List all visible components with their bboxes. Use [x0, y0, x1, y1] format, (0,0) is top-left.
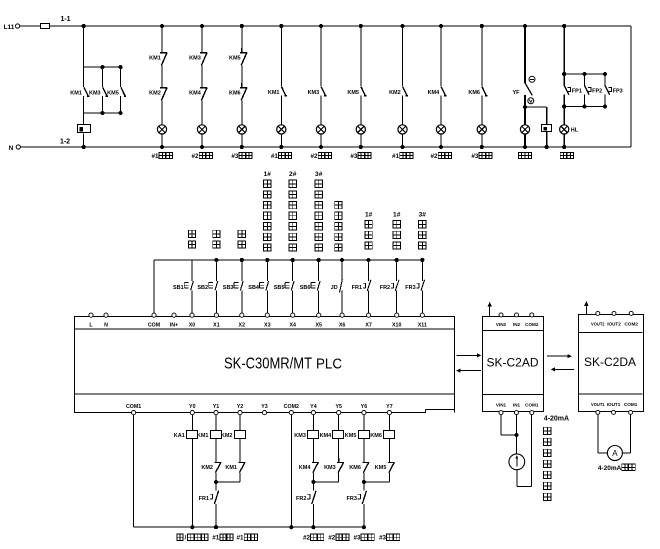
svg-text:2#: 2# — [289, 171, 297, 178]
input branch wire X3 — [266, 260, 268, 281]
svg-text:IN1: IN1 — [513, 402, 521, 407]
wire bell to bus — [83, 133, 85, 147]
contact KM4 NC — [200, 83, 207, 88]
node pair join — [311, 480, 315, 484]
wire pair join — [313, 481, 338, 483]
node top bus junction bell branch — [82, 24, 86, 28]
contact KM1 NC — [160, 48, 167, 53]
power arrow C2DA — [585, 305, 587, 315]
svg-text:FR2: FR2 — [296, 496, 306, 502]
contact KM3 NC interlock — [337, 458, 344, 462]
wire to horn — [525, 106, 547, 108]
fault branch FP1-FP3 — [562, 24, 566, 28]
svg-text:KM3: KM3 — [189, 56, 201, 62]
svg-text:X4: X4 — [289, 323, 296, 329]
svg-text:KM1: KM1 — [197, 433, 209, 439]
lamp #2变频 — [316, 125, 325, 134]
svg-text:KM4: KM4 — [189, 91, 202, 97]
svg-text:X5: X5 — [315, 323, 322, 329]
svg-text:KM3: KM3 — [89, 91, 101, 97]
arrow PLC to C2AD — [457, 354, 478, 356]
wire right frame — [630, 26, 632, 147]
node rail junction 4 — [291, 258, 295, 262]
wire IN1 to sensor — [516, 415, 518, 454]
lamp branch #3工频 (KM6) — [480, 24, 484, 28]
svg-text:4-20mA: 4-20mA — [544, 416, 569, 423]
wire COM rail — [154, 259, 422, 261]
svg-text:KM1: KM1 — [225, 465, 237, 471]
input branch wire X11 — [421, 260, 423, 281]
svg-text:VIN2: VIN2 — [496, 322, 507, 327]
wire output bottom rail — [134, 526, 364, 528]
wire COM drop — [153, 260, 155, 313]
svg-text:JD: JD — [331, 285, 338, 291]
svg-text:3#: 3# — [315, 171, 323, 178]
lamp #1停止 — [157, 125, 166, 134]
contact KM3 NC — [200, 48, 207, 53]
contact FR1 thermal — [215, 482, 217, 490]
svg-text:#3: #3 — [471, 153, 479, 160]
pin X4 (PLC top) — [291, 313, 295, 317]
pin IOUT2 (C2DA top) — [612, 311, 616, 315]
svg-text:L11: L11 — [4, 24, 15, 31]
svg-text:FR1: FR1 — [199, 496, 209, 502]
node rail junctions bottom — [100, 111, 104, 115]
input branch wire X7 — [368, 260, 370, 281]
svg-text:FP1: FP1 — [572, 89, 582, 95]
input branch wire X10 — [396, 260, 398, 281]
pin COM (PLC top) — [152, 313, 156, 317]
svg-text:Y1: Y1 — [213, 404, 220, 410]
contact KM5 NO — [361, 87, 365, 96]
svg-text:N: N — [9, 145, 14, 152]
contact KM3 (bell) — [101, 67, 103, 87]
svg-text:KM6: KM6 — [229, 91, 241, 97]
svg-text:1#: 1# — [365, 211, 373, 218]
lamp branch #2工频 (KM4) — [439, 24, 443, 28]
wire Y2 to Y1 join — [216, 481, 240, 483]
svg-text:KM5: KM5 — [375, 465, 387, 471]
svg-text:COM: COM — [148, 323, 161, 329]
svg-text:SK-C30MR/MT: SK-C30MR/MT — [224, 355, 312, 372]
contact KM2 NC interlock — [214, 458, 221, 462]
svg-text:IN2: IN2 — [513, 322, 521, 327]
terminal N — [16, 145, 20, 149]
lamp #3工频 — [477, 125, 486, 134]
svg-text:KM1: KM1 — [70, 91, 82, 97]
svg-text:SB3: SB3 — [223, 285, 234, 291]
contact KM1 NC interlock — [238, 458, 245, 462]
svg-text:#3: #3 — [231, 153, 239, 160]
svg-text:Y3: Y3 — [261, 404, 268, 410]
svg-text:KM5: KM5 — [107, 91, 119, 97]
svg-text:#3: #3 — [350, 153, 358, 160]
lamp branch #1停止 (KM1/KM2) — [160, 24, 164, 28]
svg-text:KM5: KM5 — [345, 433, 357, 439]
svg-text:IOUT1: IOUT1 — [607, 402, 621, 407]
output branch coil KM5 — [363, 415, 365, 431]
node Y1/Y2 join — [214, 480, 218, 484]
node sensor junction — [514, 433, 518, 437]
svg-text:1-1: 1-1 — [60, 16, 70, 23]
node rail junction 5 — [317, 258, 321, 262]
svg-text:KM3: KM3 — [294, 433, 306, 439]
node rail junction 8 — [395, 258, 399, 262]
lamp branch #1变频 (KM1) — [279, 24, 283, 28]
svg-text:#1: #1 — [237, 535, 245, 542]
pin X0 (PLC top) — [190, 313, 194, 317]
svg-text:KM4: KM4 — [299, 465, 312, 471]
wire VIN1 to IN1 — [500, 415, 502, 435]
input branch wire X2 — [241, 260, 243, 281]
svg-text:VIN1: VIN1 — [496, 402, 507, 407]
lamp #1工频 — [398, 125, 407, 134]
output branch Y1 coil KM1 — [215, 415, 217, 431]
svg-text:KM1: KM1 — [268, 90, 280, 96]
input branch wire X4 — [292, 260, 294, 281]
svg-text:KM6: KM6 — [370, 433, 382, 439]
svg-text:Y0: Y0 — [189, 404, 196, 410]
pin X6 (PLC top) — [340, 313, 344, 317]
svg-text:COM2: COM2 — [624, 321, 638, 326]
pressure transmitter — [509, 454, 525, 470]
svg-text:KM1: KM1 — [149, 56, 161, 62]
pin VIN2 (C2AD top) — [499, 313, 503, 317]
wire parallel group top rail — [84, 66, 121, 68]
svg-text:Y6: Y6 — [361, 404, 368, 410]
contact FR3 thermal — [363, 482, 365, 490]
lamp branch #2变频 (KM3) — [319, 24, 323, 28]
svg-text:Y4: Y4 — [310, 404, 317, 410]
wire bottom bus 1-2 — [20, 146, 631, 148]
svg-text:KM6: KM6 — [468, 90, 480, 96]
svg-text:X6: X6 — [339, 323, 346, 329]
svg-text:FR3: FR3 — [405, 285, 415, 291]
contact KM1 (bell) — [83, 67, 85, 87]
wire FP group bottom rail — [564, 106, 605, 108]
svg-text:SB5: SB5 — [274, 285, 285, 291]
svg-text:KM2: KM2 — [149, 91, 161, 97]
contact FR2 thermal — [312, 482, 314, 490]
svg-text:KM4: KM4 — [320, 433, 333, 439]
svg-text:4-20mA: 4-20mA — [598, 465, 622, 472]
node junction alarm split — [523, 105, 527, 109]
svg-text:X1: X1 — [213, 323, 220, 329]
svg-text:#3: #3 — [353, 535, 361, 542]
svg-text:VOUT1: VOUT1 — [591, 402, 605, 407]
wire pair join — [364, 481, 390, 483]
label VFD fault (vertical) — [335, 201, 342, 208]
wire COM1 drop to output rail — [133, 415, 135, 528]
label stop (vertical) — [238, 230, 245, 237]
device circle lower (buzzer) — [528, 98, 534, 104]
arrow C2AD to PLC — [460, 370, 481, 372]
power arrow C2AD — [489, 306, 491, 317]
label alarm — [518, 152, 524, 158]
svg-text:#1: #1 — [212, 535, 220, 542]
wire bell branch upper — [83, 26, 85, 67]
node rail junction 2 — [240, 258, 244, 262]
svg-text:KM3: KM3 — [308, 90, 320, 96]
svg-text:X10: X10 — [392, 323, 401, 329]
lamp branch #2停止 (KM3/KM4) — [200, 24, 204, 28]
wire FP group top rail — [564, 73, 605, 75]
pin X10 (PLC top) — [395, 313, 399, 317]
lamp fault HL — [563, 107, 565, 125]
input branch wire X1 — [215, 260, 217, 281]
contact FP2 NC — [584, 74, 586, 86]
wire to bell — [83, 113, 85, 125]
wire ammeter to COM1 — [622, 452, 630, 454]
pin X3 (PLC top) — [265, 313, 269, 317]
svg-text:IN+: IN+ — [170, 323, 178, 329]
fuse FU1 — [41, 24, 50, 29]
svg-text:#2: #2 — [303, 535, 311, 542]
lamp #2工频 — [436, 125, 445, 134]
svg-text:KM3: KM3 — [324, 465, 336, 471]
label manual (vertical) — [188, 230, 195, 237]
ammeter A — [607, 446, 622, 461]
contact FP3 NC — [604, 74, 606, 86]
pin IN2 (C2AD top) — [515, 313, 519, 317]
module SK-C2DA — [579, 315, 644, 412]
svg-text:HL: HL — [571, 128, 579, 134]
svg-text:KM2: KM2 — [201, 465, 213, 471]
input branch wire X6 — [341, 260, 343, 281]
contact KM6 NO — [482, 87, 486, 96]
node rail junction 6 — [340, 258, 344, 262]
svg-text:KM6: KM6 — [349, 465, 361, 471]
wire alarm branch lower — [524, 95, 526, 107]
lamp branch #3停止 (KM5/KM6) — [240, 24, 244, 28]
PLC module SK-C30MR/MT — [75, 317, 455, 413]
pin VOUT2 (C2DA top) — [596, 311, 600, 315]
svg-text:KM2: KM2 — [221, 433, 233, 439]
contact KM1 NO — [282, 87, 286, 96]
pin X11 (PLC top) — [420, 313, 424, 317]
contact KM4 NO — [441, 87, 445, 96]
svg-text:VOUT2: VOUT2 — [591, 321, 605, 326]
contact KM2 NC — [160, 83, 167, 88]
svg-text:#2: #2 — [328, 535, 336, 542]
arrow C2AD to C2DA — [547, 355, 568, 357]
svg-text:A: A — [612, 449, 618, 458]
svg-text:#1: #1 — [392, 153, 400, 160]
svg-text:IOUT2: IOUT2 — [607, 321, 621, 326]
node rail junction 3 — [265, 258, 269, 262]
svg-text:Y5: Y5 — [335, 404, 342, 410]
lamp branch #3变频 (KM5) — [359, 24, 363, 28]
svg-text:KA1: KA1 — [174, 433, 185, 439]
arrow C2DA to C2AD — [554, 368, 574, 370]
svg-text:FR1: FR1 — [352, 285, 362, 291]
terminal L11 — [16, 24, 20, 28]
wire COM2 drop — [290, 415, 292, 528]
pin X1 (PLC top) — [214, 313, 218, 317]
pin COM2 (C2DA top) — [629, 311, 633, 315]
svg-text:Y2: Y2 — [237, 404, 244, 410]
svg-text:YF: YF — [512, 90, 520, 96]
label auto (vertical) — [213, 230, 220, 237]
input branch wire X5 — [318, 260, 320, 281]
svg-text:#1: #1 — [152, 153, 160, 160]
contact KM5 NC — [240, 48, 247, 53]
svg-text:X3: X3 — [264, 323, 271, 329]
svg-text:KM4: KM4 — [428, 90, 441, 96]
svg-text:FR3: FR3 — [347, 496, 357, 502]
lamp #2停止 — [197, 125, 206, 134]
module SK-C2AD — [483, 317, 544, 412]
contact KM6 NC interlock — [362, 458, 369, 462]
node bottom bus junction bell branch — [82, 145, 86, 149]
svg-text:SB1: SB1 — [173, 285, 184, 291]
svg-text:3#: 3# — [419, 211, 427, 218]
svg-text:1#: 1# — [264, 171, 272, 178]
svg-text:COM2: COM2 — [525, 322, 539, 327]
svg-text:SK-C2DA: SK-C2DA — [584, 355, 636, 369]
contact KM5 NC interlock — [388, 458, 395, 462]
svg-text:KM5: KM5 — [229, 56, 241, 62]
horn HA2 — [542, 125, 552, 132]
pin X2 (PLC top) — [240, 313, 244, 317]
lamp #3变频 — [356, 125, 365, 134]
pin N (PLC top) — [104, 313, 108, 317]
pin X7 (PLC top) — [367, 313, 371, 317]
svg-text:Y7: Y7 — [386, 404, 393, 410]
svg-text:X7: X7 — [365, 323, 372, 329]
svg-text:COM2: COM2 — [284, 404, 299, 410]
svg-text:COM1: COM1 — [126, 404, 141, 410]
wire top bus 1-1 — [20, 25, 631, 27]
svg-text:PLC: PLC — [316, 356, 342, 372]
svg-text:/: / — [184, 535, 186, 542]
svg-text:FR2: FR2 — [380, 285, 390, 291]
lamp #1变频 — [277, 125, 286, 134]
device circle upper (bell) — [529, 76, 535, 82]
input branch wire X0 — [191, 260, 193, 281]
output branch Y2 coil KM2 — [239, 415, 241, 431]
svg-text:N: N — [104, 323, 108, 329]
contact FP1 NC — [563, 74, 565, 86]
pin L (PLC top) — [89, 313, 93, 317]
bell HA — [78, 125, 91, 133]
svg-text:#3: #3 — [379, 535, 387, 542]
svg-text:#2: #2 — [311, 153, 319, 160]
contact KM4 NC interlock — [312, 458, 319, 462]
svg-text:1-2: 1-2 — [60, 138, 70, 145]
node rail junction 7 — [367, 258, 371, 262]
alarm branch YF — [523, 24, 527, 28]
svg-text:KM2: KM2 — [389, 90, 401, 96]
contact KM2 NO — [403, 87, 407, 96]
output branch coil KM3 — [312, 415, 314, 431]
svg-text:SK-C2AD: SK-C2AD — [487, 356, 539, 370]
svg-text:SB4: SB4 — [248, 285, 260, 291]
contact KM5 (bell) — [120, 67, 122, 87]
node pair join — [362, 480, 366, 484]
svg-text:X0: X0 — [189, 323, 196, 329]
pin X5 (PLC top) — [317, 313, 321, 317]
output branch coil KM4 — [338, 415, 340, 431]
svg-text:1#: 1# — [393, 211, 401, 218]
node rail junctions — [100, 65, 104, 69]
label manual/auto — [177, 534, 183, 540]
contact KM6 NC — [240, 83, 247, 88]
svg-text:SB2: SB2 — [197, 285, 208, 291]
wire parallel group bottom rail — [84, 112, 121, 114]
contact KM3 NO — [321, 87, 325, 96]
svg-text:SB6: SB6 — [300, 285, 311, 291]
output branch coil KM6 — [388, 415, 390, 431]
node rail junction 1 — [214, 258, 218, 262]
label fault — [560, 152, 566, 158]
svg-text:FP3: FP3 — [613, 89, 623, 95]
wire VOUT1 to ammeter — [597, 414, 599, 453]
lamp #3停止 — [237, 125, 246, 134]
svg-text:X11: X11 — [418, 323, 427, 329]
output branch Y0 relay KA1 — [191, 415, 193, 431]
svg-text:#1: #1 — [271, 153, 279, 160]
svg-text:#2: #2 — [192, 153, 200, 160]
svg-text:COM1: COM1 — [525, 402, 539, 407]
node rail junction 9 — [420, 258, 424, 262]
lamp alarm — [524, 107, 526, 125]
pin IN+ (PLC top) — [172, 313, 176, 317]
wire sensor to COM1 — [516, 470, 518, 487]
PLC outline step bottom-right — [426, 412, 455, 414]
pin COM2 (C2AD top) — [530, 313, 534, 317]
lamp branch #1工频 (KM2) — [400, 24, 404, 28]
svg-text:#2: #2 — [431, 153, 439, 160]
svg-text:KM5: KM5 — [347, 90, 359, 96]
svg-text:X2: X2 — [239, 323, 246, 329]
svg-text:FP2: FP2 — [592, 89, 602, 95]
svg-text:COM1: COM1 — [624, 402, 638, 407]
